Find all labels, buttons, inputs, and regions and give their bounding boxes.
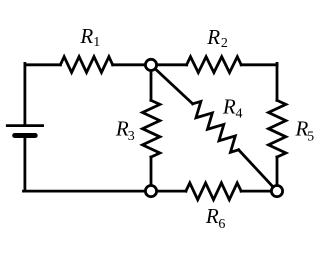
resistor R3 (143, 100, 160, 157)
wire bottom-left horizontal (24, 190, 152, 193)
wire R6 to node C (241, 190, 277, 193)
wire R4 to node C diagonal lead (239, 150, 277, 191)
wire R2 to top-right corner (241, 63, 277, 66)
wire R5 to node C (276, 157, 279, 191)
svg-text:6: 6 (218, 217, 225, 232)
svg-text:5: 5 (307, 129, 314, 144)
svg-text:4: 4 (236, 107, 243, 122)
svg-text:1: 1 (93, 35, 100, 50)
resistor R4 (193, 101, 239, 152)
battery plate positive (long) (6, 124, 44, 127)
svg-text:2: 2 (221, 36, 228, 51)
wire node A to R3 (150, 65, 153, 101)
resistor R2 (187, 57, 242, 73)
battery plate negative (short thick) (15, 133, 36, 138)
wire left vertical top to battery (23, 63, 26, 125)
svg-text:R: R (206, 25, 220, 49)
wire node A to R4 diagonal lead (151, 65, 193, 104)
wire R1 to node A (113, 63, 151, 66)
resistor R1 (60, 57, 112, 73)
node C (271, 186, 282, 197)
wire node B to R6 (151, 190, 186, 193)
svg-text:R: R (79, 24, 93, 48)
svg-text:R: R (205, 204, 219, 228)
svg-text:3: 3 (128, 129, 135, 144)
svg-text:R: R (222, 95, 236, 119)
wire R3 to node B (150, 157, 153, 191)
wire node A to R2 (151, 63, 187, 66)
wire right vertical top (276, 63, 279, 100)
node A (145, 59, 156, 70)
resistor R5 (269, 100, 286, 157)
wire battery to bottom-left corner (23, 136, 26, 192)
resistor R6 (186, 183, 241, 200)
wire top-left horizontal (25, 63, 61, 66)
node B (145, 186, 156, 197)
